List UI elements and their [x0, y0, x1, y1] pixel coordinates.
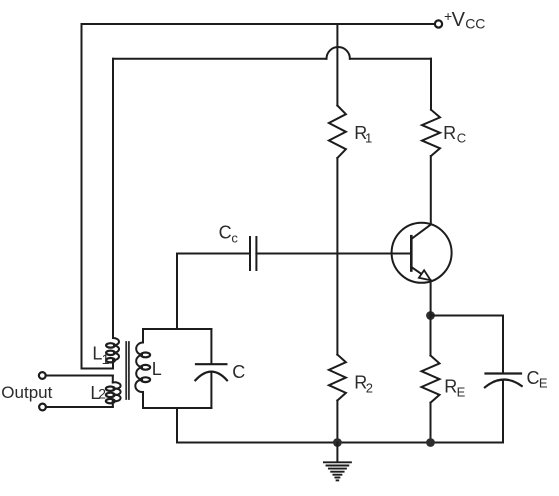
transistor Q1 circle [392, 223, 452, 283]
transistor Q1 base bar [410, 236, 413, 270]
wire: Cc left wire [177, 253, 250, 255]
inductor L leads [142, 329, 144, 343]
wire: R2 bottom lead [336, 401, 338, 443]
transistor Q1 emitter diagonal [411, 267, 421, 274]
inductor L2 bottom lead [112, 401, 114, 407]
resistor R2 [329, 355, 346, 401]
resistor R1 [329, 106, 346, 159]
capacitor C curved plate [195, 372, 227, 381]
capacitor C top plate [196, 363, 226, 365]
wire: drop from Cc wire to tank top [176, 254, 178, 330]
wire: tank top [143, 328, 211, 330]
svg-text:c: c [231, 230, 238, 245]
svg-text:CC: CC [465, 16, 485, 32]
wire: Re bottom lead [430, 403, 432, 443]
label R2 [354, 373, 373, 396]
output terminal top [39, 372, 46, 379]
inductor L2 top lead [112, 376, 114, 383]
svg-text:R: R [443, 123, 456, 143]
svg-text:C: C [232, 362, 245, 382]
wire: node to Re [430, 316, 432, 356]
wire: second rail right segment [350, 58, 431, 60]
wire: collector lead [430, 156, 432, 225]
capacitor Ce curved plate [485, 380, 522, 388]
wire: top output wire [46, 375, 113, 377]
transistor Q1 emitter arrow [419, 270, 431, 280]
capacitor C top lead [210, 329, 212, 364]
wire: R1 bottom lead down to base wire and R2 [336, 158, 338, 355]
inductor L turns [135, 343, 143, 393]
wire: left inner vertical to L1 top [112, 59, 114, 338]
label Re [444, 377, 465, 400]
capacitor Ce bottom lead [502, 380, 504, 443]
wire: R1 top lead from Vcc rail [336, 24, 338, 106]
label +Vcc [444, 8, 485, 32]
svg-text:E: E [457, 384, 466, 399]
inductor L1 bottom lead [112, 360, 114, 368]
svg-text:Output: Output [1, 383, 52, 402]
svg-text:1: 1 [365, 130, 372, 145]
output terminal bottom [39, 404, 46, 411]
svg-text:C: C [219, 222, 232, 242]
wire: hop over R1 vertical [327, 47, 350, 59]
ground node dot [333, 438, 342, 447]
capacitor Cc plates [249, 237, 251, 270]
emitter node dot [426, 311, 435, 320]
svg-text:V: V [452, 9, 466, 31]
node Vcc terminal [435, 20, 442, 27]
wire: Rc top lead [430, 59, 432, 110]
wire: emitter node to Ce [431, 315, 504, 317]
label L2 [90, 383, 106, 403]
wire: second rail left segment [113, 58, 327, 60]
label Cc [219, 222, 239, 245]
label L1 [92, 344, 109, 367]
svg-text:2: 2 [366, 380, 373, 395]
resistor Rc [422, 110, 440, 156]
wire: base wire from Cc to base [256, 253, 411, 255]
wire: left outer vertical [81, 24, 83, 369]
svg-text:1: 1 [102, 351, 110, 367]
transistor Q1 collector diagonal [411, 225, 431, 240]
capacitor Ce top plate [486, 372, 522, 374]
transformer core [125, 342, 127, 399]
capacitor C bottom lead [210, 372, 212, 408]
svg-text:C: C [457, 130, 466, 145]
svg-text:R: R [444, 377, 457, 397]
node dot Re bottom [426, 438, 435, 447]
label Ce [527, 368, 548, 391]
label Rc [443, 123, 466, 145]
wire: emitter vertical to node [430, 280, 432, 315]
inductor L1 turns [113, 338, 119, 360]
wire: Ce top lead [502, 316, 504, 374]
wire: bottom rail [177, 442, 503, 444]
wire: tank bottom [143, 407, 211, 409]
resistor Re [422, 356, 440, 403]
inductor L2 turns [113, 382, 121, 401]
wire: tank bottom drop to ground rail [176, 408, 178, 443]
wire: bottom output wire [46, 406, 113, 408]
wire: horizontal to L1 bottom [82, 368, 114, 370]
svg-text:C: C [527, 368, 540, 388]
label R1 [354, 123, 372, 146]
ground stub [336, 443, 338, 462]
svg-text:E: E [539, 376, 548, 391]
ground symbol [324, 462, 351, 480]
wire: +Vcc top rail [82, 23, 435, 25]
svg-text:L: L [152, 359, 162, 379]
svg-text:2: 2 [98, 386, 106, 402]
